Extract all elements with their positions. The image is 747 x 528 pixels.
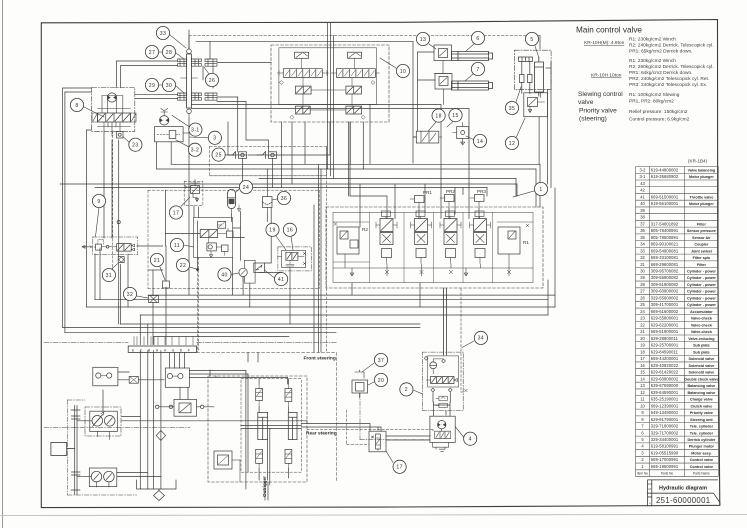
- balloon 10: [396, 64, 409, 77]
- svg-text:PR3: 240kg/cm2 Telescopick cy: PR3: 240kg/cm2 Telescopick cyl. Ex.: [629, 82, 707, 88]
- svg-text:36: 36: [281, 196, 287, 202]
- svg-text:22: 22: [640, 322, 645, 327]
- svg-text:309-95700082: 309-95700082: [651, 269, 679, 274]
- pump suction lines: [77, 421, 110, 487]
- svg-text:21: 21: [154, 258, 160, 264]
- text (KR-1B4): [688, 159, 708, 164]
- valve10 port diamonds: [280, 81, 375, 120]
- svg-text:24: 24: [640, 309, 645, 314]
- svg-text:Solenoid valve: Solenoid valve: [688, 364, 714, 368]
- balloon 28: [162, 45, 175, 58]
- node 22: [196, 268, 199, 271]
- steering metering unit B: [165, 368, 189, 387]
- check valve 31: [118, 257, 124, 263]
- svg-text:Valve-check: Valve-check: [691, 323, 713, 327]
- svg-text:37: 37: [378, 358, 384, 364]
- solenoid valve 17a body: [191, 186, 200, 194]
- svg-text:33: 33: [160, 31, 166, 37]
- svg-text:669-17000991: 669-17000991: [651, 457, 679, 462]
- balloon 8: [70, 98, 83, 111]
- svg-text:Slewing control: Slewing control: [578, 91, 623, 98]
- outrigger cylinder A: [258, 412, 268, 439]
- svg-text:36: 36: [640, 228, 645, 233]
- pump upper left (variable): [92, 416, 103, 427]
- valve10 inner frame: [279, 48, 377, 105]
- svg-text:26: 26: [209, 78, 215, 84]
- motor4 spool: [435, 431, 451, 439]
- balloon 29: [145, 78, 158, 91]
- svg-text:20: 20: [378, 378, 384, 384]
- svg-text:B8: B8: [648, 495, 652, 499]
- check diamond on line: [156, 431, 165, 441]
- svg-text:639-64590001: 639-64590001: [651, 390, 679, 395]
- svg-text:619-35680902: 619-35680902: [651, 174, 679, 179]
- check valve 25b: [257, 152, 277, 159]
- svg-text:41: 41: [278, 277, 284, 283]
- balloon 36: [277, 191, 290, 204]
- valve10 right solenoid: [348, 52, 362, 58]
- svg-text:5: 5: [530, 37, 533, 43]
- svg-text:29: 29: [149, 83, 155, 89]
- svg-text:669-29600081: 669-29600081: [651, 262, 679, 267]
- text KR-10H(M) spec: [584, 37, 714, 55]
- svg-text:K3: K3: [648, 482, 652, 486]
- svg-text:17: 17: [396, 465, 402, 471]
- svg-text:Valve-reducing: Valve-reducing: [688, 337, 714, 341]
- svg-text:317-54001892: 317-54001892: [651, 221, 679, 226]
- swivel left ports upper 27/28: [178, 59, 187, 66]
- svg-text:27: 27: [640, 289, 645, 294]
- svg-text:23: 23: [640, 316, 645, 321]
- svg-text:10: 10: [640, 403, 645, 408]
- tele cylinder 6: [452, 52, 489, 61]
- outrigger balancing valve A bottom: [256, 449, 263, 463]
- svg-text:Parts No: Parts No: [661, 472, 674, 476]
- svg-text:valve: valve: [578, 99, 594, 106]
- filter 36: [263, 197, 273, 208]
- manifold bar: [128, 346, 196, 352]
- svg-text:19: 19: [269, 228, 275, 234]
- svg-text:Double check valve: Double check valve: [684, 377, 718, 381]
- swivel left ports lower 29/30: [178, 93, 187, 100]
- title block Hydraulic diagram: [647, 480, 720, 507]
- valve1 outlet R1 section: [498, 227, 520, 254]
- svg-text:Motor assy.: Motor assy.: [691, 451, 711, 455]
- svg-text:Clutch valve: Clutch valve: [691, 404, 713, 408]
- balloon 2: [400, 383, 413, 396]
- balloon 6: [471, 31, 484, 44]
- svg-text:Solenoid valve: Solenoid valve: [688, 357, 714, 361]
- motor4 subplate: [433, 429, 449, 451]
- outrigger balancing valve B top: [285, 389, 292, 402]
- svg-text:805-78400891: 805-78400891: [651, 228, 679, 233]
- motor4 circle: [438, 421, 446, 429]
- valve1 inlet R2 section: [337, 227, 359, 254]
- swivel top node: [187, 49, 192, 54]
- filter spin 32: [149, 296, 159, 303]
- valve1 station spools: [380, 219, 393, 232]
- svg-text:Item No: Item No: [637, 472, 648, 476]
- valve2 filter: [430, 362, 437, 369]
- valve10 left mid valve: [296, 86, 312, 94]
- svg-text:629-40920022: 629-40920022: [651, 363, 679, 368]
- svg-text:7: 7: [476, 67, 479, 73]
- svg-text:25: 25: [215, 152, 221, 158]
- svg-text:Outrigger: Outrigger: [262, 476, 267, 497]
- svg-text:Valve-check: Valve-check: [691, 330, 713, 334]
- motor 3 inner valve: [169, 131, 176, 139]
- svg-text:R2: R2: [362, 227, 368, 232]
- valve10 right main spool: [336, 69, 375, 78]
- slewing motor circle: [107, 93, 116, 102]
- balloon 18: [432, 109, 445, 122]
- svg-text:Plunger motor: Plunger motor: [689, 445, 715, 449]
- balloon 17: [169, 206, 182, 219]
- svg-text:R1: R1: [523, 240, 529, 245]
- balloon 12: [505, 136, 518, 149]
- valve11 spool A: [200, 230, 217, 238]
- svg-text:669-33100081: 669-33100081: [651, 255, 679, 260]
- valve1 drain x marks: [334, 223, 529, 274]
- svg-text:4: 4: [469, 437, 472, 443]
- svg-text:Cylinder - power: Cylinder - power: [687, 290, 716, 294]
- svg-text:12: 12: [509, 141, 515, 147]
- balloon 19: [266, 223, 279, 236]
- port node left2 of flow divider: [169, 405, 172, 408]
- outrigger reducing valve: [214, 451, 232, 469]
- control valve 2 dash-dot box: [422, 352, 463, 410]
- svg-text:649-13490001: 649-13490001: [651, 410, 679, 415]
- valve11 top small valve: [218, 222, 226, 229]
- svg-text:669-12390001: 669-12390001: [651, 403, 679, 408]
- svg-text:669-54900081: 669-54900081: [651, 248, 679, 253]
- PR3 pilot: [477, 189, 486, 194]
- text Slewing control valve spec: [578, 91, 680, 106]
- svg-text:Balancing valve: Balancing valve: [687, 391, 715, 395]
- valve10 right mid valve: [346, 86, 362, 94]
- svg-text:805-78500891: 805-78500891: [651, 235, 679, 240]
- valve10 left solenoid: [295, 52, 309, 58]
- priority valve 9 dash-dot box: [93, 237, 138, 255]
- pump lower left: [91, 471, 102, 482]
- svg-text:17: 17: [173, 210, 179, 216]
- svg-text:(KR-1B4): (KR-1B4): [688, 159, 708, 164]
- label Outrigger (vertical): [262, 476, 267, 497]
- outrigger inner dashed box: [241, 379, 301, 473]
- svg-text:669-19500991: 669-19500991: [651, 464, 679, 469]
- balloon 23: [129, 138, 142, 151]
- valve10 inner connections: [302, 58, 355, 110]
- svg-text:34: 34: [478, 336, 484, 342]
- svg-text:Front steering: Front steering: [304, 356, 336, 362]
- svg-text:629-91790001: 629-91790001: [651, 417, 679, 422]
- svg-text:Filter: Filter: [697, 222, 707, 226]
- svg-text:669-61600002: 669-61600002: [651, 309, 679, 314]
- svg-text:619-05515990: 619-05515990: [651, 450, 679, 455]
- svg-text:32: 32: [127, 292, 133, 298]
- svg-text:12: 12: [640, 390, 645, 395]
- valve11 sub valve: [207, 243, 216, 251]
- svg-text:18: 18: [640, 349, 645, 354]
- balloon 37: [374, 353, 387, 366]
- balloon 25: [212, 148, 225, 161]
- svg-text:Sub plate: Sub plate: [693, 350, 710, 354]
- svg-text:17: 17: [640, 356, 645, 361]
- svg-text:309-55900082: 309-55900082: [651, 275, 679, 280]
- svg-text:629-55800001: 629-55800001: [651, 316, 679, 321]
- pressure gauge 40: [239, 268, 247, 276]
- dashed pilot to valve2: [460, 289, 462, 393]
- svg-text:Parts Name: Parts Name: [693, 472, 710, 476]
- valve1 drain arrows: [350, 268, 509, 276]
- check valve 25a: [227, 152, 247, 159]
- pump shaft: [71, 406, 80, 495]
- derrick cylinder 5 dash-dot box: [514, 50, 551, 89]
- svg-text:Hydraulic diagram: Hydraulic diagram: [659, 485, 707, 491]
- svg-text:43: 43: [640, 181, 645, 186]
- svg-text:3-1: 3-1: [640, 174, 647, 179]
- valve2 port diamonds: [424, 356, 452, 392]
- svg-text:Rear steering: Rear steering: [306, 430, 337, 436]
- svg-text:34: 34: [640, 242, 645, 247]
- balloon 33: [156, 26, 169, 39]
- svg-text:Accumulator: Accumulator: [690, 310, 713, 314]
- svg-text:26: 26: [640, 295, 645, 300]
- svg-text:42: 42: [640, 188, 645, 193]
- svg-text:PR3: PR3: [477, 189, 486, 194]
- svg-text:Sensor Air: Sensor Air: [692, 236, 711, 240]
- svg-text:635-25190001: 635-25190001: [651, 397, 679, 402]
- svg-text:Tele. cylinder: Tele. cylinder: [690, 431, 714, 435]
- flow divider valve (mid bottom-left): [174, 399, 197, 416]
- svg-text:309-51900082: 309-51900082: [651, 282, 679, 287]
- port node left of flow divider: [156, 405, 159, 408]
- svg-text:R1: 100kg/cm2 Slewing: R1: 100kg/cm2 Slewing: [629, 92, 680, 98]
- svg-text:Coupler: Coupler: [694, 243, 708, 247]
- svg-text:15: 15: [452, 113, 458, 119]
- svg-text:10: 10: [400, 69, 406, 75]
- slewing valve drain lines: [104, 122, 120, 136]
- swivel mid tick: [181, 78, 198, 119]
- valve10 left main spool: [283, 69, 322, 78]
- svg-text:Joint swivel: Joint swivel: [691, 249, 712, 253]
- PR1 pilot: [423, 190, 432, 195]
- swivel joint 33 group: [187, 54, 192, 108]
- balloon 30: [162, 78, 175, 91]
- PR2 pilot: [446, 189, 455, 194]
- svg-text:14: 14: [640, 376, 645, 381]
- svg-text:629-81420022: 629-81420022: [651, 370, 679, 375]
- svg-text:309-41700001: 309-41700001: [651, 302, 679, 307]
- slewing control valve 8 dash-dot box: [92, 88, 135, 132]
- svg-text:F: F: [188, 348, 190, 352]
- svg-text:Cylinder - power: Cylinder - power: [687, 296, 716, 300]
- swivel right ports upper 26: [191, 59, 217, 66]
- motor 3 output wires: [157, 142, 172, 169]
- svg-text:669-51500001: 669-51500001: [651, 194, 679, 199]
- balloon 16: [283, 223, 296, 236]
- svg-text:18: 18: [435, 113, 441, 119]
- balloon 3-2: [188, 143, 201, 156]
- svg-text:Cylinder - power: Cylinder - power: [687, 283, 716, 287]
- svg-text:Valve-check: Valve-check: [691, 317, 713, 321]
- solenoid valve 19/16 dash-dot box: [278, 247, 312, 271]
- svg-text:629-84590011: 629-84590011: [651, 349, 679, 354]
- valve2 spool: [431, 377, 454, 384]
- balancing valve 12: [524, 93, 548, 117]
- text KR-10H 10ton spec: [591, 58, 714, 88]
- svg-text:1: 1: [539, 187, 542, 193]
- parts list table: [636, 167, 719, 477]
- svg-text:Valve balancing: Valve balancing: [688, 168, 716, 172]
- svg-text:11: 11: [640, 397, 645, 402]
- svg-text:31: 31: [640, 262, 645, 267]
- filter box small: [129, 376, 138, 383]
- balloon 32: [123, 287, 136, 300]
- steering pump unit A: [93, 367, 118, 386]
- balloon 13: [416, 32, 429, 45]
- svg-text:Priority valve: Priority valve: [579, 108, 617, 115]
- svg-text:23: 23: [132, 143, 138, 149]
- svg-text:Derrick cylinder: Derrick cylinder: [687, 438, 715, 442]
- tele cylinder 7 valve: [435, 74, 452, 90]
- dashed pilot elbow: [461, 389, 467, 392]
- valve9 spool: [117, 244, 132, 252]
- pump upper right: [104, 416, 115, 427]
- balloon 34: [474, 331, 487, 344]
- slewing motor loop: [102, 96, 123, 114]
- control valve 10 dashed box: [271, 45, 389, 122]
- svg-text:13: 13: [640, 383, 645, 388]
- svg-text:38: 38: [640, 215, 645, 220]
- label Front steering: [304, 356, 336, 362]
- svg-text:2: 2: [405, 387, 408, 393]
- text Priority valve (steering) spec: [579, 108, 690, 123]
- swivel bottom node: [187, 109, 192, 114]
- solenoid valve 16 body: [282, 251, 306, 268]
- valve1 inner frame: [333, 213, 533, 283]
- svg-text:629-62200001: 629-62200001: [651, 322, 679, 327]
- svg-text:Tele. cylinder: Tele. cylinder: [690, 425, 714, 429]
- svg-text:11: 11: [174, 243, 180, 249]
- pump lower right: [104, 471, 115, 482]
- svg-text:669-44200001: 669-44200001: [651, 356, 679, 361]
- derrick cyl 5 top valve: [519, 57, 533, 62]
- small valve 37/20: [352, 380, 368, 393]
- balloon 27: [145, 45, 158, 58]
- balloon 40: [218, 268, 231, 281]
- suction strainer diamond: [154, 491, 165, 501]
- svg-text:(steering): (steering): [579, 116, 607, 123]
- svg-text:251-60000001: 251-60000001: [656, 496, 711, 505]
- balloon 4: [464, 432, 477, 445]
- svg-text:29: 29: [640, 275, 645, 280]
- gearbox: [51, 442, 67, 455]
- svg-text:PR1: PR1: [423, 190, 432, 195]
- svg-text:31: 31: [106, 273, 112, 279]
- svg-text:20: 20: [640, 336, 645, 341]
- svg-text:9: 9: [97, 199, 100, 205]
- svg-text:629-25700001: 629-25700001: [651, 343, 679, 348]
- svg-text:669-51900001: 669-51900001: [651, 329, 679, 334]
- valve10 right bottom valve: [346, 106, 362, 114]
- svg-text:27: 27: [149, 50, 155, 56]
- svg-text:629-28900011: 629-28900011: [651, 336, 679, 341]
- svg-text:Control pressure: 6.9kg/cm2: Control pressure: 6.9kg/cm2: [629, 117, 690, 123]
- clutch valve body behind gauge: [244, 260, 255, 283]
- balloon 41: [275, 273, 288, 286]
- svg-text:16: 16: [640, 363, 645, 368]
- svg-text:40: 40: [221, 272, 227, 278]
- svg-text:Control valve: Control valve: [690, 465, 713, 469]
- svg-text:6: 6: [476, 36, 479, 42]
- svg-text:R1: 230kg/cm2 Winch: R1: 230kg/cm2 Winch: [629, 37, 676, 43]
- check valve 41: [254, 263, 265, 272]
- tele cylinder 7: [452, 81, 489, 90]
- balloon 20: [374, 373, 387, 386]
- slewing spool valve 8: [98, 113, 131, 122]
- valve 17b solenoid element: [376, 434, 381, 449]
- svg-text:PR1, PR2: 80kg/cm2: PR1, PR2: 80kg/cm2: [629, 99, 674, 105]
- svg-text:Balancing valve: Balancing valve: [687, 384, 715, 388]
- svg-text:14: 14: [477, 139, 483, 145]
- svg-text:35: 35: [640, 235, 645, 240]
- valve10 left bottom valve: [296, 106, 311, 114]
- svg-text:R2: 260kg/cm2 Derrick. Telesc: R2: 260kg/cm2 Derrick. Telescopick cyl.: [629, 64, 714, 70]
- outrigger balancing valve A top: [256, 389, 263, 401]
- reducing valve 18: [416, 131, 439, 143]
- svg-text:30: 30: [640, 269, 645, 274]
- pump pair upper dash box: [85, 407, 121, 436]
- valve1 inner column rails: [370, 213, 493, 283]
- svg-text:329-71800002: 329-71800002: [651, 424, 679, 429]
- svg-text:32: 32: [640, 255, 645, 260]
- svg-text:16: 16: [287, 228, 293, 234]
- motor assy 3 circle: [160, 116, 169, 125]
- balloon 9: [92, 194, 105, 207]
- svg-text:Throttle valve: Throttle valve: [689, 195, 713, 199]
- svg-text:22: 22: [180, 263, 186, 269]
- accumulator 24: [228, 190, 236, 209]
- svg-text:639-67590000: 639-67590000: [651, 383, 679, 388]
- svg-text:PR2: 240kg/cm2 Telescopick cy: PR2: 240kg/cm2 Telescopick cyl. Ret.: [629, 76, 709, 82]
- text Main control valve: [576, 26, 642, 35]
- svg-text:Priority valve: Priority valve: [690, 411, 713, 415]
- svg-text:619-44800002: 619-44800002: [651, 167, 679, 172]
- balancing valve 13: [434, 45, 452, 61]
- outrigger cylinder B: [288, 412, 297, 439]
- swivel right ports lower: [191, 93, 217, 100]
- solenoid valve 17b box: [369, 431, 386, 452]
- balloon 31: [102, 269, 115, 282]
- balloon 17: [393, 460, 406, 473]
- svg-text:R1: 230kg/cm2 Winch: R1: 230kg/cm2 Winch: [629, 58, 676, 64]
- svg-text:Cylinder - power: Cylinder - power: [687, 303, 716, 307]
- node on line x119: [117, 221, 120, 224]
- balloon 1: [534, 182, 547, 195]
- svg-text:619-58100991: 619-58100991: [651, 444, 679, 449]
- valve1 internal rails: [333, 254, 533, 268]
- balloon 26: [205, 73, 218, 86]
- svg-text:Charge valve: Charge valve: [690, 398, 713, 402]
- derrick cylinder body: [535, 57, 544, 96]
- svg-text:KR-10H(M): 4.9ton: KR-10H(M): 4.9ton: [584, 40, 625, 46]
- balloon 15: [449, 109, 462, 122]
- svg-text:Motor plunger: Motor plunger: [689, 202, 714, 206]
- solenoid valve 17a dashed box: [184, 181, 203, 205]
- balloon 35: [505, 101, 518, 114]
- check valves 25 dashed group: [210, 147, 327, 176]
